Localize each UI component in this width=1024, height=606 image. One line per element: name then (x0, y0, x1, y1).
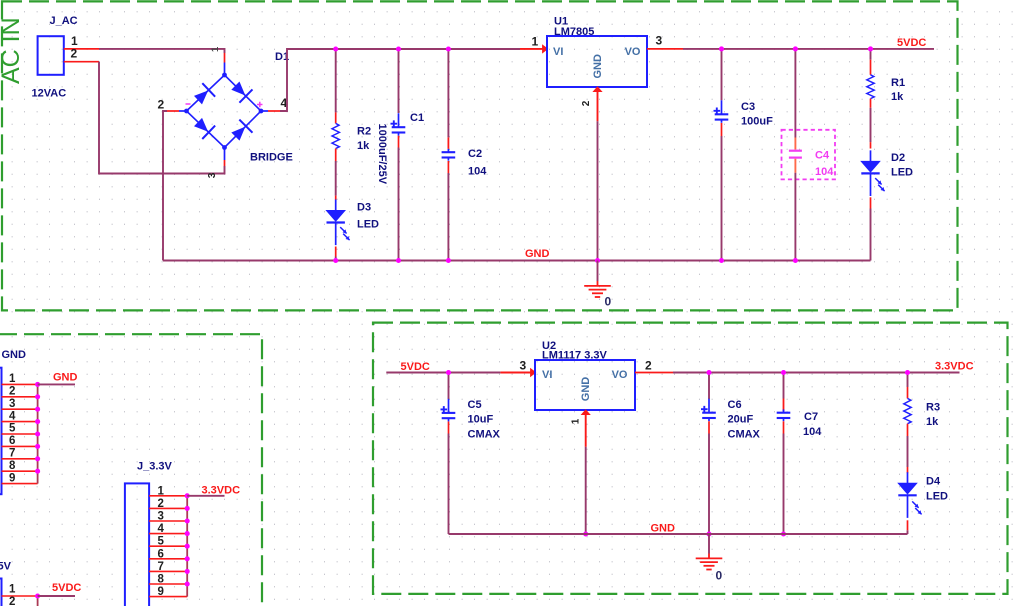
U2 pin 1 stub (585, 415, 587, 447)
bridge pin 1 stub (224, 53, 226, 63)
svg-text:5V: 5V (0, 561, 12, 573)
svg-text:CMAX: CMAX (468, 429, 501, 441)
svg-text:0: 0 (605, 295, 612, 309)
junction U2 GND (583, 531, 588, 536)
junction C3 bottom (719, 258, 724, 263)
U2 pin 3 arrow (530, 368, 536, 377)
junction U1 GND (595, 258, 600, 263)
D4 light arrows (912, 501, 921, 514)
bridge diode bottom-right (229, 120, 253, 144)
svg-text:9: 9 (9, 472, 15, 484)
5VDC rail (683, 48, 934, 50)
svg-text:D3: D3 (357, 202, 371, 214)
svg-text:J_3.3V: J_3.3V (137, 461, 173, 473)
R1 pin stub top (870, 60, 872, 75)
junction C1 top (396, 46, 401, 51)
svg-text:5: 5 (158, 536, 165, 548)
capacitor C1 (polarized) (391, 113, 406, 136)
J_GND pin 6 stub (2, 445, 38, 447)
D4 pin stub top (907, 467, 909, 473)
svg-text:5VDC: 5VDC (401, 361, 430, 373)
R2 pin stub top (335, 112, 337, 123)
wire rail to R3 (907, 373, 909, 388)
wire D2 to GND rail (870, 209, 872, 261)
svg-text:J_AC: J_AC (50, 15, 78, 27)
wire J_AC pin2 to bridge bottom (99, 62, 225, 174)
svg-text:C1: C1 (410, 112, 424, 124)
svg-text:AC IN: AC IN (0, 17, 25, 84)
junction C3 top (719, 46, 724, 51)
C4 pin stub bottom (selected) (794, 159, 796, 173)
J_3.3V pin 7 stub (149, 570, 187, 572)
svg-text:8: 8 (9, 460, 16, 472)
resistor R3 (904, 398, 911, 423)
C4 pin stub top (selected) (794, 138, 796, 150)
wire C1 to GND rail (398, 148, 400, 261)
J_GND pin 7 stub (2, 458, 38, 460)
wire rail to C4 (794, 49, 796, 138)
J_GND pin 9 stub (2, 483, 38, 485)
svg-text:GND: GND (651, 523, 676, 535)
J_3.3V pin 3 stub (149, 520, 187, 522)
resistor R2 (332, 123, 339, 148)
resistor R1 (867, 75, 874, 99)
svg-text:104: 104 (468, 166, 487, 178)
svg-text:D4: D4 (926, 476, 941, 488)
svg-text:12VAC: 12VAC (32, 88, 67, 100)
3.3VDC rail (673, 372, 960, 374)
U1 pin 1 arrow (542, 44, 548, 53)
wire joining J_5V pins (37, 596, 39, 606)
connector J_3.3V body (125, 483, 149, 606)
J_GND pin 1 stub (2, 383, 38, 385)
capacitor C6 (polarized) (701, 399, 716, 422)
svg-text:7: 7 (158, 561, 164, 573)
junction R3 top (905, 370, 910, 375)
svg-text:GND: GND (580, 377, 592, 402)
wire rail to C6 (708, 373, 710, 400)
wire rail to C1 (398, 49, 400, 113)
capacitor C5 (polarized) (441, 399, 456, 422)
svg-text:1: 1 (9, 584, 16, 596)
D2 light arrows (875, 178, 884, 191)
connector J_AC (38, 36, 64, 75)
svg-text:1: 1 (571, 418, 582, 424)
wire 5VDC to U2 (386, 372, 500, 374)
U2 pin 3 stub (500, 372, 531, 374)
C4 selection box (782, 130, 836, 180)
svg-text:1k: 1k (891, 91, 904, 103)
capacitor C4 (selected) (789, 151, 802, 158)
U1 pin 2 arrow (592, 86, 602, 92)
svg-text:LM7805: LM7805 (554, 26, 594, 38)
svg-text:C7: C7 (804, 411, 818, 423)
svg-text:1: 1 (532, 35, 539, 49)
junction C6 top (706, 370, 711, 375)
D2 pin stub bottom (870, 197, 872, 208)
D3 pin stub bottom (335, 247, 337, 257)
R1 pin stub bottom (870, 99, 872, 108)
svg-text:GND: GND (2, 349, 27, 361)
D3 pin stub top (335, 196, 337, 200)
C7 pin stub bottom (783, 421, 785, 433)
junction J_GND pin 1 (35, 382, 40, 387)
junction J_3.3V pin 4 (185, 531, 190, 536)
section box 3.3V regulator (373, 323, 1008, 594)
svg-text:3: 3 (158, 511, 164, 523)
svg-text:GND: GND (525, 248, 550, 260)
wire D4 down (907, 530, 909, 534)
junction J_GND pin 8 (35, 469, 40, 474)
junction R2 top (333, 46, 338, 51)
wire J_3.3V pin1 to 3.3VDC net (187, 495, 224, 497)
svg-text:104: 104 (803, 426, 822, 438)
D4 pin stub bottom (907, 520, 909, 530)
C6 pin stub bottom (708, 421, 710, 433)
wire C7 to GND rail (783, 434, 785, 535)
op-amp U2 LM1117 body (535, 360, 635, 410)
junction J_3.3V pin 5 (185, 544, 190, 549)
svg-text:R3: R3 (926, 402, 940, 414)
wire bridge pin4 to +raw rail (280, 49, 520, 111)
junction J_3.3V pin 1 (185, 493, 190, 498)
capacitor C2 (442, 149, 456, 161)
U1 pin 1 stub (520, 48, 543, 50)
svg-text:4: 4 (158, 523, 165, 535)
svg-text:1k: 1k (357, 140, 370, 152)
svg-text:3: 3 (207, 172, 218, 178)
junction J_3.3V pin 3 (185, 518, 190, 523)
svg-text:3.3VDC: 3.3VDC (202, 485, 241, 497)
wire to C5 (448, 373, 450, 400)
svg-text:GND: GND (53, 372, 78, 384)
svg-text:C3: C3 (741, 101, 755, 113)
svg-text:GND: GND (592, 54, 604, 79)
svg-text:R2: R2 (357, 126, 371, 138)
wire J_5V pin1 to 5VDC net (38, 595, 75, 597)
junction C6 bottom (706, 531, 711, 536)
svg-text:3: 3 (520, 359, 527, 373)
GND rail top section (163, 260, 871, 262)
C1 pin stub bottom (398, 136, 400, 148)
wire rail to R1 (870, 49, 872, 60)
J_3.3V pin 1 stub (149, 495, 187, 497)
U1 pin 2 stub (597, 92, 599, 122)
bridge diode top-left (192, 83, 216, 107)
wire C2 to GND rail (447, 173, 449, 261)
svg-text:C5: C5 (468, 399, 482, 411)
svg-text:LM1117 3.3V: LM1117 3.3V (542, 350, 607, 362)
U2 pin 1 arrow (581, 409, 591, 415)
R3 pin stub top (907, 387, 909, 398)
wire C4 to GND rail (794, 173, 796, 261)
svg-text:VO: VO (625, 46, 641, 58)
connector J_GND body (0, 368, 2, 495)
svg-text:LED: LED (357, 219, 379, 231)
svg-text:3: 3 (9, 398, 15, 410)
junction D3 bottom (333, 258, 338, 263)
junction J_3.3V pin 6 (185, 556, 190, 561)
svg-text:R1: R1 (891, 77, 905, 89)
svg-text:104: 104 (815, 166, 834, 178)
ground symbol 0 (top section) (597, 261, 599, 282)
svg-text:1: 1 (158, 485, 165, 497)
svg-text:1000uF/25V: 1000uF/25V (376, 124, 388, 185)
svg-text:D2: D2 (891, 152, 905, 164)
wire bridge pin2 down to GND rail (163, 111, 167, 261)
bridge pin 2 stub (167, 110, 179, 112)
wire J_GND pin1 to GND net (38, 383, 75, 385)
connector J_5V body (0, 579, 2, 606)
svg-text:2: 2 (158, 98, 165, 112)
junction C4 top (793, 46, 798, 51)
LED D3 (327, 200, 345, 246)
junction J_3.3V pin 8 (185, 581, 190, 586)
svg-text:3.3VDC: 3.3VDC (935, 361, 974, 373)
op-amp U1 LM7805 body (547, 36, 647, 87)
svg-text:6: 6 (9, 435, 15, 447)
wire rail to C2 (447, 49, 449, 137)
svg-text:5VDC: 5VDC (52, 582, 81, 594)
svg-text:C6: C6 (728, 399, 742, 411)
J_GND pin 2 stub (2, 396, 38, 398)
junction J_3.3V pin 2 (185, 506, 190, 511)
bridge polarity marks (186, 103, 191, 105)
svg-text:2: 2 (158, 498, 164, 510)
junction R1 top (868, 46, 873, 51)
J_GND pin 5 stub (2, 433, 38, 435)
wire R2 to D3 (335, 161, 337, 196)
svg-text:2: 2 (645, 359, 652, 373)
junction C1 bottom (396, 258, 401, 263)
svg-text:8: 8 (158, 574, 165, 586)
wire R1 to D2 (870, 108, 872, 142)
svg-text:20uF: 20uF (728, 414, 754, 426)
svg-text:9: 9 (158, 586, 164, 598)
wire rail to C3 (721, 49, 723, 100)
LED D4 (898, 472, 916, 518)
svg-text:10uF: 10uF (468, 414, 494, 426)
svg-text:4: 4 (9, 410, 16, 422)
svg-text:2: 2 (581, 100, 592, 106)
R3 pin stub bottom (907, 424, 909, 436)
svg-text:1k: 1k (926, 416, 939, 428)
wire rail to R2 (335, 49, 337, 112)
U2 pin 2 stub (635, 372, 673, 374)
J_3.3V pin 4 stub (149, 533, 187, 535)
svg-text:6: 6 (158, 548, 164, 560)
svg-text:5VDC: 5VDC (897, 37, 926, 49)
J_3.3V pin 5 stub (149, 545, 187, 547)
svg-text:VI: VI (542, 369, 552, 381)
svg-text:7: 7 (9, 448, 15, 460)
junction J_GND pin 7 (35, 456, 40, 461)
J_3.3V pin 2 stub (149, 507, 187, 509)
svg-text:CMAX: CMAX (728, 429, 761, 441)
bridge pin 4 stub (261, 110, 268, 112)
svg-text:2: 2 (9, 386, 15, 398)
junction C5 top (446, 370, 451, 375)
J_GND pin 4 stub (2, 421, 38, 423)
C3 pin stub bottom (721, 123, 723, 136)
wire rail to C7 (783, 373, 785, 399)
wire joining J_GND pins (37, 384, 39, 483)
svg-text:VI: VI (553, 46, 563, 58)
junction J_GND pin 5 (35, 431, 40, 436)
wire J_AC pin1 to bridge top (99, 49, 225, 53)
section box bottom-left connectors (0, 334, 262, 606)
U1 pin 3 stub (647, 48, 683, 50)
wire joining J_3.3V pins (186, 496, 188, 597)
C5 pin stub bottom (448, 422, 450, 434)
svg-text:LED: LED (926, 491, 948, 503)
svg-text:VO: VO (612, 369, 628, 381)
D2 pin stub top (870, 142, 872, 148)
J_AC pin 1 stub (64, 48, 99, 50)
wire C3 to GND rail (721, 136, 723, 261)
svg-text:2: 2 (71, 47, 78, 61)
wire D3 to GND rail (335, 257, 337, 261)
junction C2 bottom (446, 258, 451, 263)
section box AC IN (2, 1, 958, 310)
R2 pin stub bottom (335, 149, 337, 162)
svg-text:C2: C2 (468, 148, 482, 160)
D3 light arrows (340, 227, 349, 240)
svg-text:100uF: 100uF (741, 116, 773, 128)
junction C2 top (446, 46, 451, 51)
svg-text:1: 1 (9, 373, 16, 385)
J_3.3V pin 8 stub (149, 583, 187, 585)
junction J_GND pin 4 (35, 419, 40, 424)
bridge pin 3 stub (224, 148, 226, 161)
wire C6 to GND rail (708, 434, 710, 535)
junction C7 top (781, 370, 786, 375)
J_GND pin 3 stub (2, 408, 38, 410)
svg-text:5: 5 (9, 423, 16, 435)
bridge rectifier D1 (187, 75, 262, 148)
svg-text:C4: C4 (815, 150, 830, 162)
svg-text:BRIDGE: BRIDGE (250, 152, 293, 164)
J_5V pin 1 stub (2, 595, 38, 597)
junction J_3.3V pin 7 (185, 569, 190, 574)
LED D2 (861, 150, 879, 196)
bridge diode top-right (229, 79, 253, 103)
svg-text:0: 0 (716, 569, 723, 583)
capacitor C7 (777, 409, 791, 421)
wire R3 to D4 (907, 436, 909, 467)
wire U1 pin2 to GND rail (597, 121, 599, 260)
C2 pin stub top (447, 137, 449, 149)
bridge diode bottom-left (192, 115, 216, 139)
wire C5 to GND rail (448, 434, 450, 535)
junction J_GND pin 2 (35, 394, 40, 399)
svg-text:LED: LED (891, 167, 913, 179)
junction C4 bottom (793, 258, 798, 263)
J_GND pin 8 stub (2, 470, 38, 472)
junction C7 bottom (781, 531, 786, 536)
svg-text:1: 1 (210, 46, 221, 52)
bridge node dots (222, 73, 227, 78)
junction J_5V pin 1 (35, 593, 40, 598)
junction J_GND pin 3 (35, 407, 40, 412)
J_3.3V pin 6 stub (149, 558, 187, 560)
GND rail 3.3V section (449, 533, 908, 535)
capacitor C3 (polarized) (714, 100, 729, 123)
wire U2 pin1 to GND rail (585, 447, 587, 534)
J_3.3V pin 9 stub (149, 596, 187, 598)
svg-text:2: 2 (9, 596, 15, 606)
C7 pin stub top (783, 399, 785, 412)
junction J_GND pin 6 (35, 444, 40, 449)
C2 pin stub bottom (447, 161, 449, 173)
J_AC pin 2 stub (64, 61, 99, 63)
ground symbol 0 (3.3V section) (708, 534, 710, 554)
svg-text:3: 3 (656, 34, 663, 48)
